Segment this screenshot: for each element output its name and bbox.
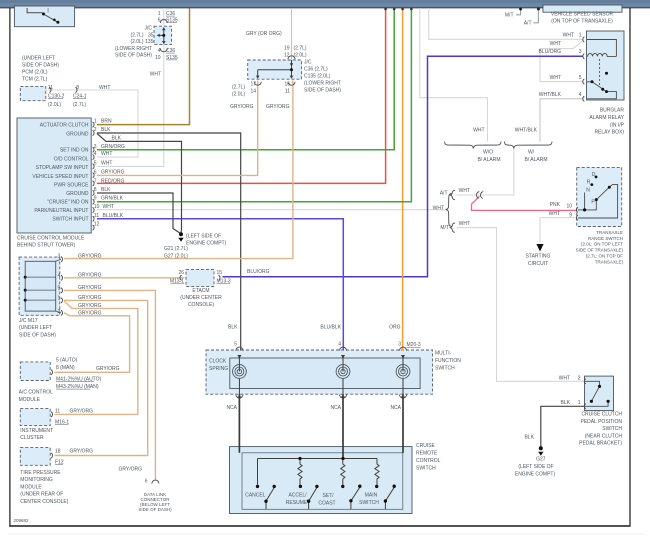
svg-text:16: 16 [284, 82, 290, 88]
svg-text:STOPLAMP SW INPUT: STOPLAMP SW INPUT [36, 165, 89, 171]
svg-text:35: 35 [148, 32, 154, 38]
svg-text:(ON TOP OF TRANSAXLE): (ON TOP OF TRANSAXLE) [551, 19, 613, 25]
svg-text:BLU/ORG: BLU/ORG [538, 49, 561, 55]
svg-text:4: 4 [158, 48, 161, 54]
svg-text:SIDE OF DASH): SIDE OF DASH) [115, 53, 152, 59]
svg-text:2: 2 [578, 376, 581, 382]
svg-text:W/O: W/O [483, 149, 493, 155]
svg-text:(UNDER CENTER: (UNDER CENTER [180, 295, 222, 301]
svg-text:17: 17 [250, 82, 256, 88]
svg-text:5 (AUTO): 5 (AUTO) [56, 357, 78, 363]
svg-text:MAIN: MAIN [365, 493, 378, 499]
svg-text:CENTER CONSOLE): CENTER CONSOLE) [20, 499, 68, 505]
svg-text:11: 11 [94, 213, 99, 219]
svg-text:8 (MAN): 8 (MAN) [56, 365, 75, 371]
svg-text:5: 5 [234, 342, 237, 348]
svg-text:MONITORING: MONITORING [20, 477, 53, 483]
svg-text:CONTROL: CONTROL [416, 458, 441, 464]
svg-text:SIDE OF DASH): SIDE OF DASH) [304, 88, 341, 94]
svg-text:11: 11 [55, 409, 60, 415]
svg-text:SIDE OF DASH): SIDE OF DASH) [22, 63, 59, 69]
svg-text:12: 12 [284, 53, 290, 59]
svg-text:8: 8 [94, 187, 97, 193]
svg-text:10: 10 [566, 203, 572, 209]
svg-text:BLU/BLK: BLU/BLK [320, 325, 341, 331]
svg-text:N: N [586, 188, 590, 194]
svg-text:14: 14 [250, 89, 256, 95]
svg-text:CLOCK: CLOCK [209, 359, 227, 365]
svg-text:NCA: NCA [330, 405, 341, 411]
svg-text:GRY/ORG: GRY/ORG [119, 467, 143, 473]
svg-text:SIDE OF DASH): SIDE OF DASH) [19, 332, 56, 338]
svg-text:4: 4 [58, 273, 61, 279]
svg-text:STARTING: STARTING [526, 253, 551, 259]
svg-text:7: 7 [94, 179, 97, 185]
svg-text:SWITCH: SWITCH [416, 465, 436, 471]
svg-text:ENGINE COMPT): ENGINE COMPT) [186, 240, 227, 246]
svg-text:4: 4 [94, 151, 97, 157]
svg-text:1: 1 [158, 11, 161, 17]
svg-text:26: 26 [178, 270, 184, 276]
svg-text:3: 3 [94, 144, 97, 150]
svg-text:SWITCH: SWITCH [602, 426, 622, 432]
svg-text:TRANSAXLE: TRANSAXLE [596, 230, 623, 235]
svg-text:FUNCTION: FUNCTION [435, 358, 461, 364]
svg-text:MODULE: MODULE [19, 397, 41, 403]
svg-text:PWR SOURCE: PWR SOURCE [54, 182, 89, 188]
svg-text:SIDE OF TRANSAXLE): SIDE OF TRANSAXLE) [576, 247, 624, 252]
svg-text:9: 9 [94, 196, 97, 202]
svg-text:19: 19 [284, 46, 290, 52]
svg-text:WHT: WHT [563, 32, 574, 38]
svg-text:209682: 209682 [14, 518, 30, 523]
svg-text:(2.7L): (2.7L) [294, 46, 307, 52]
svg-text:(2.7L): (2.7L) [232, 85, 245, 91]
svg-text:TIRE PRESSURE: TIRE PRESSURE [20, 470, 61, 476]
svg-text:10: 10 [94, 204, 100, 210]
svg-text:BLK: BLK [561, 400, 571, 406]
svg-text:CANCEL: CANCEL [245, 493, 266, 499]
svg-text:12: 12 [94, 222, 100, 228]
svg-text:8: 8 [76, 85, 79, 91]
svg-text:NCA: NCA [226, 405, 237, 411]
svg-text:RANGE SWITCH: RANGE SWITCH [588, 236, 623, 241]
svg-text:GRY/ORG: GRY/ORG [266, 104, 290, 110]
svg-text:B/ ALARM: B/ ALARM [477, 157, 500, 163]
svg-text:PNK: PNK [550, 202, 561, 208]
svg-text:WHT/BLK: WHT/BLK [539, 92, 562, 98]
svg-text:1: 1 [58, 295, 61, 301]
svg-text:6: 6 [145, 479, 148, 485]
svg-text:11: 11 [48, 85, 53, 91]
svg-text:(2.0L): (2.0L) [48, 102, 61, 108]
svg-text:BLU/BLK: BLU/BLK [103, 213, 124, 219]
svg-text:1: 1 [578, 400, 581, 406]
svg-text:BURGLAR: BURGLAR [600, 108, 625, 114]
svg-text:BLU/ORG: BLU/ORG [247, 269, 270, 275]
svg-text:1: 1 [94, 119, 97, 125]
svg-text:GRY/ORG: GRY/ORG [78, 272, 102, 278]
svg-text:BLK: BLK [101, 187, 111, 193]
svg-text:GRN/ORG: GRN/ORG [101, 144, 125, 150]
svg-text:9: 9 [569, 212, 572, 218]
svg-text:WHT: WHT [99, 85, 110, 91]
svg-text:ACCEL/: ACCEL/ [288, 493, 307, 499]
svg-text:GRY/ORG: GRY/ORG [70, 449, 94, 455]
svg-text:SET/: SET/ [322, 493, 334, 499]
svg-text:6: 6 [158, 18, 161, 24]
svg-text:(2.0L): (2.0L) [294, 53, 307, 59]
svg-text:G27: G27 [536, 457, 546, 463]
svg-text:3: 3 [398, 342, 401, 348]
svg-text:11: 11 [285, 89, 290, 95]
svg-text:(2.7L): (2.7L) [130, 32, 143, 38]
svg-text:GRY/ORG: GRY/ORG [78, 295, 102, 301]
svg-text:(NEAR CLUTCH: (NEAR CLUTCH [585, 433, 623, 439]
svg-text:REMOTE: REMOTE [416, 450, 438, 456]
svg-text:10: 10 [155, 55, 161, 61]
svg-text:(UNDER REAR OF: (UNDER REAR OF [20, 492, 63, 498]
svg-text:18: 18 [55, 449, 61, 455]
svg-text:15: 15 [217, 270, 223, 276]
svg-text:SWITCH: SWITCH [359, 500, 379, 506]
svg-text:BEHIND STRUT TOWER): BEHIND STRUT TOWER) [17, 243, 76, 249]
svg-text:WHT: WHT [101, 161, 112, 167]
svg-text:NCA: NCA [390, 405, 401, 411]
svg-text:ENGINE COMPT): ENGINE COMPT) [515, 472, 556, 478]
svg-text:(IN I/P: (IN I/P [610, 122, 625, 128]
svg-text:4: 4 [338, 342, 341, 348]
svg-text:M/T: M/T [440, 225, 449, 231]
svg-text:SIDE OF DASH): SIDE OF DASH) [138, 507, 172, 512]
svg-text:WHT: WHT [103, 204, 114, 210]
svg-text:CIRCUIT: CIRCUIT [528, 261, 548, 267]
svg-text:WHT: WHT [459, 188, 470, 194]
svg-text:O/D CONTROL: O/D CONTROL [54, 156, 89, 162]
svg-text:GRY/ORG: GRY/ORG [96, 366, 120, 372]
svg-text:5: 5 [58, 285, 61, 291]
svg-text:RELAY BOX): RELAY BOX) [594, 130, 624, 136]
svg-text:COAST: COAST [318, 501, 335, 507]
svg-text:(LOWER RIGHT: (LOWER RIGHT [115, 46, 152, 52]
svg-text:BLK: BLK [112, 136, 122, 142]
svg-text:5: 5 [579, 75, 582, 81]
svg-text:PEDAL POSITION: PEDAL POSITION [581, 419, 623, 425]
svg-text:WHT/BLK: WHT/BLK [515, 128, 538, 134]
svg-text:SPRING: SPRING [209, 366, 228, 372]
svg-text:TCM (2.7L): TCM (2.7L) [22, 77, 48, 83]
svg-text:A/C CONTROL: A/C CONTROL [19, 390, 53, 396]
svg-text:BLK: BLK [228, 325, 238, 331]
svg-text:(2.0L): (2.0L) [130, 39, 143, 45]
svg-text:(2.0L: ON TOP LEFT: (2.0L: ON TOP LEFT [581, 242, 623, 247]
svg-text:VEHICLE SPEED INPUT: VEHICLE SPEED INPUT [32, 174, 88, 180]
svg-text:CRUISE CLUTCH: CRUISE CLUTCH [581, 412, 622, 418]
svg-text:(LEFT SIDE OF: (LEFT SIDE OF [518, 464, 553, 470]
svg-text:WHT: WHT [459, 221, 470, 227]
svg-text:1: 1 [579, 32, 582, 38]
svg-text:2: 2 [58, 309, 61, 315]
svg-text:GRY/ORG: GRY/ORG [78, 311, 102, 317]
svg-text:J/C: J/C [304, 60, 312, 66]
svg-text:ACTUATOR CLUTCH: ACTUATOR CLUTCH [40, 123, 89, 129]
svg-text:GRY/ORG: GRY/ORG [78, 253, 102, 259]
svg-text:C36 (2.7L): C36 (2.7L) [304, 67, 328, 73]
svg-text:3: 3 [579, 49, 582, 55]
svg-text:ALARM RELAY: ALARM RELAY [589, 115, 624, 121]
svg-text:TRANSAXLE): TRANSAXLE) [595, 259, 624, 264]
svg-text:GRY/ORG: GRY/ORG [101, 169, 125, 175]
svg-text:PCM (2.0L): PCM (2.0L) [22, 70, 48, 76]
svg-text:CRUISE CONTROL MODULE: CRUISE CONTROL MODULE [17, 235, 85, 241]
svg-text:PEDAL BRACKET): PEDAL BRACKET) [579, 441, 622, 447]
svg-text:(2.0L): (2.0L) [232, 92, 245, 98]
svg-text:(LEFT SIDE OF: (LEFT SIDE OF [186, 233, 221, 239]
svg-text:WHT: WHT [433, 206, 444, 212]
svg-text:BRN: BRN [101, 119, 112, 125]
svg-text:6: 6 [94, 169, 97, 175]
svg-text:VEHICLE SPEED SENSOR: VEHICLE SPEED SENSOR [551, 11, 614, 17]
svg-text:135: 135 [145, 39, 154, 45]
svg-text:RED/ORG: RED/ORG [101, 179, 124, 185]
svg-text:D: D [592, 172, 596, 178]
svg-text:GRY (OR ORG): GRY (OR ORG) [246, 31, 282, 37]
svg-text:SWITCH INPUT: SWITCH INPUT [52, 217, 88, 223]
svg-text:ETACM: ETACM [192, 288, 209, 294]
svg-text:MULTI-: MULTI- [435, 350, 452, 356]
svg-text:G21 (2.7L): G21 (2.7L) [164, 246, 188, 252]
svg-text:A/T: A/T [440, 191, 448, 197]
svg-text:GRY/ORG: GRY/ORG [70, 409, 94, 415]
svg-text:J/C M17: J/C M17 [19, 318, 38, 324]
svg-text:"CRUISE" IND ON: "CRUISE" IND ON [47, 200, 89, 206]
svg-text:WHT: WHT [550, 75, 561, 81]
svg-text:R: R [587, 180, 591, 186]
svg-text:ORG: ORG [389, 325, 401, 331]
svg-text:SWITCH: SWITCH [435, 365, 455, 371]
svg-text:J/C: J/C [145, 26, 153, 32]
svg-text:PARK/NEUTRAL INPUT: PARK/NEUTRAL INPUT [34, 208, 88, 214]
svg-text:GRY/ORG: GRY/ORG [78, 303, 102, 309]
svg-text:CLUSTER: CLUSTER [20, 435, 44, 441]
svg-text:W/: W/ [528, 149, 535, 155]
svg-text:INSTRUMENT: INSTRUMENT [20, 428, 53, 434]
svg-text:GRY/ORG: GRY/ORG [78, 285, 102, 291]
svg-text:(UNDER LEFT: (UNDER LEFT [22, 56, 55, 62]
svg-text:C135 (2.0L): C135 (2.0L) [304, 74, 331, 80]
svg-text:GRN/BLK: GRN/BLK [101, 196, 124, 202]
svg-text:GROUND: GROUND [66, 191, 89, 197]
svg-text:WHT: WHT [559, 376, 570, 382]
svg-text:BLK: BLK [525, 435, 535, 441]
svg-text:3: 3 [58, 254, 61, 260]
svg-text:WHT: WHT [550, 41, 561, 47]
svg-text:CRUISE: CRUISE [416, 443, 436, 449]
svg-text:(LOWER RIGHT: (LOWER RIGHT [304, 81, 341, 87]
svg-text:WHT: WHT [549, 211, 560, 217]
svg-text:2: 2 [94, 127, 97, 133]
svg-text:(UNDER LEFT: (UNDER LEFT [19, 325, 52, 331]
svg-text:(2.7L: ON TOP OF: (2.7L: ON TOP OF [586, 254, 624, 259]
svg-text:(2.7L): (2.7L) [73, 102, 86, 108]
svg-text:A/T: A/T [524, 21, 532, 27]
svg-text:RESUME: RESUME [286, 500, 308, 506]
svg-text:BLK: BLK [101, 127, 111, 133]
svg-text:5: 5 [94, 161, 97, 167]
svg-text:GRY/ORG: GRY/ORG [230, 104, 254, 110]
svg-text:MODULE: MODULE [20, 484, 42, 490]
svg-text:WHT: WHT [150, 71, 161, 77]
svg-text:4: 4 [579, 92, 582, 98]
svg-text:B/ ALARM: B/ ALARM [524, 157, 547, 163]
svg-text:WHT: WHT [473, 128, 484, 134]
svg-text:SET IND ON: SET IND ON [60, 148, 89, 154]
svg-text:CONSOLE): CONSOLE) [188, 302, 214, 308]
svg-text:WHT: WHT [101, 151, 112, 157]
svg-text:GROUND: GROUND [66, 131, 89, 137]
svg-text:G27 (2.0L): G27 (2.0L) [164, 253, 188, 259]
svg-text:M/T: M/T [505, 13, 514, 19]
